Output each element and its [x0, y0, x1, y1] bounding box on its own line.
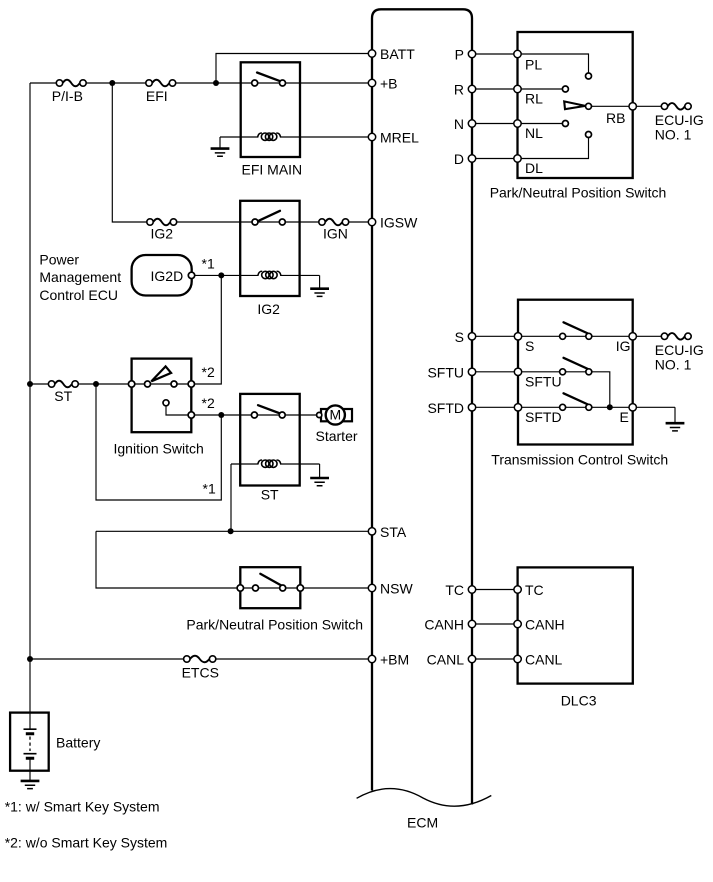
- svg-text:Management: Management: [39, 269, 121, 285]
- svg-text:P: P: [455, 47, 464, 63]
- svg-text:BATT: BATT: [380, 46, 415, 62]
- svg-text:M: M: [329, 407, 341, 423]
- svg-text:DLC3: DLC3: [561, 693, 597, 709]
- svg-text:CANH: CANH: [424, 617, 464, 633]
- svg-text:CANL: CANL: [427, 652, 465, 668]
- svg-text:EFI: EFI: [146, 88, 168, 104]
- svg-text:NL: NL: [525, 125, 543, 141]
- svg-text:R: R: [454, 82, 464, 98]
- svg-text:Battery: Battery: [56, 735, 100, 751]
- svg-text:+B: +B: [380, 76, 398, 92]
- svg-text:CANH: CANH: [525, 617, 565, 633]
- svg-text:ETCS: ETCS: [182, 665, 219, 681]
- svg-text:TC: TC: [445, 582, 464, 598]
- svg-text:PL: PL: [525, 57, 542, 73]
- svg-text:RB: RB: [606, 110, 625, 126]
- svg-text:N: N: [454, 116, 464, 132]
- svg-text:IGN: IGN: [323, 225, 348, 241]
- svg-text:IGSW: IGSW: [380, 215, 418, 231]
- svg-text:Power: Power: [39, 252, 79, 268]
- svg-text:Starter: Starter: [316, 428, 358, 444]
- svg-text:NSW: NSW: [380, 581, 413, 597]
- svg-text:*1: w/ Smart Key System: *1: w/ Smart Key System: [5, 799, 160, 815]
- svg-text:ST: ST: [261, 487, 279, 503]
- svg-text:*1: *1: [203, 481, 216, 497]
- svg-text:P/I-B: P/I-B: [52, 88, 83, 104]
- svg-text:S: S: [455, 329, 464, 345]
- svg-text:NO. 1: NO. 1: [655, 356, 692, 372]
- svg-text:IG2: IG2: [257, 301, 280, 317]
- svg-text:Transmission Control Switch: Transmission Control Switch: [491, 452, 668, 468]
- svg-text:IG2D: IG2D: [151, 268, 184, 284]
- svg-text:NO. 1: NO. 1: [655, 127, 692, 143]
- svg-text:RL: RL: [525, 91, 543, 107]
- svg-text:Control ECU: Control ECU: [39, 287, 118, 303]
- svg-text:+BM: +BM: [380, 652, 409, 668]
- svg-text:SFTD: SFTD: [525, 409, 562, 425]
- svg-text:SFTU: SFTU: [427, 364, 464, 380]
- svg-text:S: S: [525, 338, 534, 354]
- svg-text:*2: *2: [202, 395, 215, 411]
- svg-text:IG: IG: [616, 338, 631, 354]
- svg-text:STA: STA: [380, 524, 407, 540]
- svg-text:ECM: ECM: [407, 815, 438, 831]
- svg-text:D: D: [454, 151, 464, 167]
- svg-text:TC: TC: [525, 582, 544, 598]
- svg-text:MREL: MREL: [380, 130, 419, 146]
- svg-text:CANL: CANL: [525, 652, 563, 668]
- svg-text:Park/Neutral Position Switch: Park/Neutral Position Switch: [186, 617, 363, 633]
- svg-text:SFTU: SFTU: [525, 374, 562, 390]
- svg-text:E: E: [620, 409, 629, 425]
- svg-text:DL: DL: [525, 160, 543, 176]
- svg-text:SFTD: SFTD: [427, 400, 464, 416]
- svg-text:ST: ST: [54, 388, 72, 404]
- svg-text:Ignition Switch: Ignition Switch: [114, 441, 204, 457]
- svg-text:EFI MAIN: EFI MAIN: [242, 161, 303, 177]
- svg-text:*2: *2: [202, 364, 215, 380]
- svg-text:IG2: IG2: [151, 225, 174, 241]
- svg-text:Park/Neutral Position Switch: Park/Neutral Position Switch: [490, 185, 667, 201]
- svg-text:*2: w/o Smart Key System: *2: w/o Smart Key System: [5, 835, 168, 851]
- svg-text:*1: *1: [202, 256, 215, 272]
